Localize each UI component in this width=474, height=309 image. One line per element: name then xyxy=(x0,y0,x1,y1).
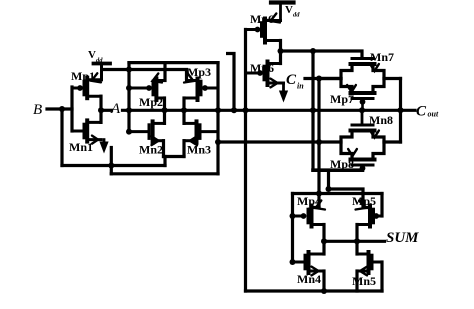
wire feedback B lower xyxy=(62,164,165,167)
wire SUM mid rail xyxy=(324,240,385,243)
wire TG1 right terminal xyxy=(384,77,401,80)
node Cin rail dot xyxy=(316,76,322,82)
node TG2 Cin dot xyxy=(316,139,322,145)
svg-text:Mn8: Mn8 xyxy=(369,113,393,127)
svg-text:Mp6: Mp6 xyxy=(250,12,274,26)
wire Mp3/Mn3 drain vertical xyxy=(182,98,185,123)
wire TG1 left terminal xyxy=(319,77,341,80)
svg-text:V: V xyxy=(285,4,293,16)
transistor Mn5 (NMOS, mirrored) xyxy=(372,261,382,264)
wire outer top rail to Mp3 gate xyxy=(129,61,218,64)
wire B vertical feed down xyxy=(60,109,63,166)
transistor Mn3 (NMOS, mirrored) xyxy=(200,130,218,133)
transistor Mp4 (PMOS) xyxy=(293,215,301,218)
wire SUM block top rail xyxy=(293,192,383,195)
wire Mp2 source vertical to outer rail xyxy=(163,63,166,81)
node Cin top rail dot xyxy=(316,191,322,197)
svg-text:out: out xyxy=(428,110,439,119)
svg-text:dd: dd xyxy=(96,57,103,64)
wire Cin-bar to Mn7 gate xyxy=(281,51,363,59)
power Vdd left symbol xyxy=(94,62,111,66)
node inverter output dot xyxy=(98,107,104,113)
wire inner top rail from Vdd to Mp3 source xyxy=(102,70,187,81)
svg-text:Mp6: Mp6 xyxy=(250,61,274,75)
wire TG2 right terminal xyxy=(384,140,401,143)
svg-text:V: V xyxy=(88,49,96,61)
wire Bbar jog to Mp5 source xyxy=(329,170,371,207)
svg-text:B: B xyxy=(33,102,42,118)
svg-text:Mp7: Mp7 xyxy=(330,92,354,106)
wire Mp4 source corner xyxy=(312,206,320,209)
wire Mn2-Mn3 source rail xyxy=(164,155,185,158)
wire A gate rail vertical xyxy=(127,63,130,132)
node Mn4 gate tap dot xyxy=(290,259,296,265)
node A rail junction dot xyxy=(126,107,132,113)
node mid rail dot left xyxy=(321,238,327,244)
wire B input xyxy=(47,107,72,110)
svg-text:C: C xyxy=(416,104,427,120)
wire inverter gate rail xyxy=(70,87,73,131)
node mid rail dot right xyxy=(354,238,360,244)
svg-text:dd: dd xyxy=(293,12,300,19)
wire Mp6 gate rail vertical xyxy=(244,30,247,292)
wire Mp2/Mn2 drain vertical xyxy=(163,98,166,123)
node V1 top dot xyxy=(310,48,316,54)
svg-text:C: C xyxy=(286,72,297,88)
svg-text:Mp2: Mp2 xyxy=(139,95,163,109)
node Mp2 gate tap dot xyxy=(126,85,132,91)
wire TG2 left terminal xyxy=(319,140,341,143)
svg-text:Mn2: Mn2 xyxy=(139,143,163,157)
wire junction stub vertical xyxy=(110,148,113,174)
wire rail to TG2 left terminal xyxy=(218,140,319,143)
wire Cinbar vertical rail V1 xyxy=(311,51,314,170)
transistor Mp8 (PMOS, horizontal) xyxy=(351,158,375,162)
wire inverter output vertical xyxy=(99,96,102,122)
node Cin-bar dot xyxy=(278,48,284,54)
node Mp6 rail bus dot xyxy=(243,107,249,113)
transistor Mp1 (PMOS) xyxy=(72,87,77,90)
wire Mp6 drain vertical xyxy=(279,41,282,64)
svg-text:Mn3: Mn3 xyxy=(187,143,211,157)
wire SUM block left rail xyxy=(291,194,294,263)
wire Cin input xyxy=(305,77,341,80)
node gate rail bus dot xyxy=(215,107,221,113)
node Cout junction dot xyxy=(398,107,404,113)
node TG gate mid dot xyxy=(359,107,365,113)
wire Cout rail vertical xyxy=(399,79,402,143)
transistor Mn7 (NMOS, horizontal) xyxy=(352,57,373,60)
transistor Mn2 (NMOS) xyxy=(129,130,149,133)
node inner rail dot xyxy=(126,67,132,73)
transistor Mn4 (NMOS) xyxy=(293,261,306,264)
wire Mp8 gate run xyxy=(313,168,363,172)
transistor Mp5 (PMOS, mirrored) xyxy=(379,215,382,218)
wire feedback lower long xyxy=(111,172,218,175)
node V1 bus dot xyxy=(310,107,316,113)
transistor Mp6 lower (NMOS) xyxy=(246,72,258,75)
wire Mp4 drain vertical xyxy=(322,225,325,255)
node Mp3 drain dot xyxy=(181,107,187,113)
svg-text:in: in xyxy=(297,82,304,91)
node jog corner dot xyxy=(326,186,332,192)
wire Mp3/Mn3 gate rail vertical xyxy=(216,63,219,174)
node stub bus dot xyxy=(231,107,237,113)
transistor Mn8 (NMOS, horizontal) xyxy=(361,110,364,125)
wire Mn3 source down to source rail xyxy=(182,141,185,157)
wire long output bus stub at A xyxy=(101,109,112,112)
power Vdd top symbol xyxy=(271,0,294,4)
ground under Mn1 xyxy=(103,140,106,142)
wire Mn5 source vertical xyxy=(355,271,358,291)
transistor Mp6 upper (PMOS) xyxy=(246,28,255,31)
svg-text:Mp3: Mp3 xyxy=(187,65,211,79)
node Mn2 gate tap dot xyxy=(126,129,132,135)
node Mp2 drain dot xyxy=(162,107,168,113)
wire feedback riser xyxy=(163,157,166,166)
wire Mn4 source vertical xyxy=(322,271,325,291)
svg-text:Mp5: Mp5 xyxy=(352,194,376,208)
svg-text:Mn1: Mn1 xyxy=(69,140,93,154)
transistor Mp7 (PMOS, horizontal) xyxy=(351,91,375,95)
wire long output bus (Bbar row) xyxy=(123,109,416,112)
svg-text:Mn4: Mn4 xyxy=(297,272,321,286)
wire Mn5 gate rail right xyxy=(380,262,383,291)
transistor Mn1 (NMOS) xyxy=(72,130,84,133)
transistor Mp3 (PMOS, mirrored) xyxy=(208,87,218,90)
node B junction dot xyxy=(59,106,65,112)
wire SUM block right rail upper xyxy=(380,194,383,217)
svg-text:Mn7: Mn7 xyxy=(370,50,394,64)
svg-text:Mp1: Mp1 xyxy=(71,69,95,83)
node bottom rail dot xyxy=(321,288,327,294)
wire Mn2 source down to feedback rail xyxy=(162,141,165,157)
node Mp4 gate tap dot xyxy=(290,213,296,219)
wire stub left upper xyxy=(226,54,234,111)
transistor Mp2 (PMOS) xyxy=(129,87,146,90)
wire Mp5 drain vertical xyxy=(355,225,358,255)
wire Cin vertical rail xyxy=(317,79,320,208)
node rail TG2 feed dot xyxy=(215,139,221,145)
wire bottom rail xyxy=(246,289,383,292)
node feedback junction dot xyxy=(108,163,114,169)
svg-text:SUM: SUM xyxy=(386,230,419,246)
ground under lower Mp6 xyxy=(282,83,285,91)
